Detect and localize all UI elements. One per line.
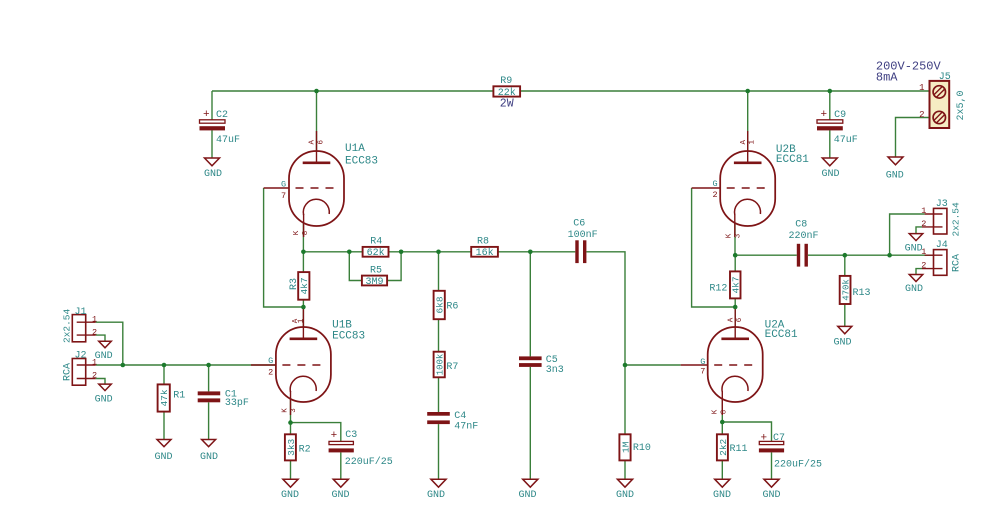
svg-text:R2: R2 — [299, 445, 311, 456]
svg-text:220uF/25: 220uF/25 — [774, 458, 822, 470]
svg-text:G: G — [281, 180, 286, 190]
svg-text:J2: J2 — [75, 351, 87, 362]
svg-text:+: + — [331, 430, 338, 442]
svg-text:1: 1 — [298, 318, 306, 323]
svg-text:K: K — [281, 408, 289, 413]
svg-text:+: + — [203, 109, 210, 121]
svg-text:47uF: 47uF — [834, 135, 858, 146]
svg-text:2k2: 2k2 — [718, 438, 729, 455]
svg-text:8: 8 — [302, 231, 310, 236]
svg-text:C8: C8 — [795, 220, 807, 231]
svg-text:8: 8 — [721, 410, 729, 415]
svg-text:C2: C2 — [216, 110, 228, 121]
svg-text:220nF: 220nF — [789, 231, 819, 242]
svg-text:C6: C6 — [573, 219, 585, 230]
svg-text:R12: R12 — [709, 284, 727, 295]
svg-text:16k: 16k — [476, 247, 494, 259]
svg-text:4k7: 4k7 — [299, 277, 310, 294]
svg-text:2W: 2W — [500, 97, 514, 110]
svg-text:GND: GND — [834, 338, 852, 349]
svg-text:C7: C7 — [773, 433, 785, 444]
svg-text:GND: GND — [281, 490, 299, 501]
svg-text:6k8: 6k8 — [435, 296, 446, 313]
svg-text:3k3: 3k3 — [286, 438, 297, 455]
svg-text:A: A — [727, 317, 735, 322]
svg-text:C3: C3 — [345, 430, 357, 441]
svg-text:33pF: 33pF — [225, 398, 249, 409]
svg-text:1: 1 — [92, 357, 97, 367]
svg-text:2: 2 — [921, 261, 926, 271]
svg-text:ECC83: ECC83 — [332, 331, 365, 343]
svg-text:GND: GND — [905, 284, 923, 295]
svg-text:GND: GND — [763, 490, 781, 501]
svg-text:R1: R1 — [173, 391, 185, 402]
svg-text:470k: 470k — [842, 279, 852, 301]
svg-text:ECC81: ECC81 — [765, 329, 798, 341]
svg-text:GND: GND — [95, 351, 113, 362]
svg-text:J5: J5 — [939, 72, 951, 83]
svg-text:GND: GND — [519, 490, 537, 501]
svg-text:J4: J4 — [936, 240, 948, 251]
svg-text:J1: J1 — [75, 307, 87, 318]
svg-text:R8: R8 — [477, 237, 489, 248]
svg-text:6: 6 — [317, 140, 325, 145]
svg-text:R4: R4 — [370, 237, 382, 248]
svg-text:2: 2 — [921, 219, 926, 229]
svg-text:7: 7 — [281, 191, 286, 201]
svg-text:R10: R10 — [633, 443, 651, 454]
svg-text:3: 3 — [734, 233, 742, 238]
svg-text:3n3: 3n3 — [546, 365, 564, 376]
svg-text:8mA: 8mA — [876, 70, 898, 84]
svg-text:2x2.54: 2x2.54 — [951, 202, 962, 237]
svg-text:K: K — [293, 230, 301, 235]
svg-text:R5: R5 — [370, 265, 382, 276]
svg-text:2x5,0: 2x5,0 — [956, 90, 967, 120]
svg-text:47uF: 47uF — [216, 135, 240, 146]
svg-text:47nF: 47nF — [454, 422, 478, 433]
svg-text:100k: 100k — [436, 354, 446, 376]
svg-text:R7: R7 — [446, 362, 458, 373]
svg-text:100nF: 100nF — [568, 230, 598, 241]
svg-text:R13: R13 — [853, 288, 871, 299]
svg-text:2x2.54: 2x2.54 — [62, 308, 73, 343]
svg-text:GND: GND — [822, 169, 840, 180]
svg-text:220uF/25: 220uF/25 — [345, 456, 393, 468]
svg-text:47k: 47k — [159, 389, 170, 406]
svg-text:GND: GND — [905, 244, 923, 255]
svg-text:GND: GND — [155, 452, 173, 463]
svg-text:GND: GND — [332, 490, 350, 501]
svg-text:+: + — [761, 433, 768, 445]
svg-text:C4: C4 — [454, 411, 466, 422]
svg-text:J3: J3 — [936, 199, 948, 210]
svg-text:1M: 1M — [620, 441, 631, 453]
svg-text:2: 2 — [92, 371, 97, 381]
svg-text:RCA: RCA — [63, 363, 74, 381]
svg-text:4k7: 4k7 — [731, 276, 742, 293]
svg-text:+: + — [821, 109, 828, 121]
svg-text:K: K — [726, 233, 734, 238]
svg-text:U1A: U1A — [345, 143, 365, 155]
svg-text:2: 2 — [92, 327, 97, 337]
svg-text:2: 2 — [919, 110, 924, 120]
svg-text:GND: GND — [200, 452, 218, 463]
svg-text:GND: GND — [886, 171, 904, 182]
svg-text:ECC83: ECC83 — [345, 155, 378, 167]
svg-text:62k: 62k — [367, 247, 385, 259]
svg-text:R9: R9 — [500, 76, 512, 87]
svg-text:7: 7 — [700, 367, 705, 377]
svg-text:3M9: 3M9 — [365, 277, 383, 288]
svg-text:G: G — [713, 179, 718, 189]
svg-text:2: 2 — [713, 190, 718, 200]
svg-text:R11: R11 — [730, 444, 748, 455]
svg-text:C9: C9 — [834, 110, 846, 121]
svg-text:1: 1 — [749, 140, 757, 145]
svg-text:RCA: RCA — [952, 254, 963, 272]
svg-text:GND: GND — [616, 490, 634, 501]
svg-text:2: 2 — [268, 368, 273, 378]
svg-text:A: A — [309, 140, 317, 145]
svg-text:R6: R6 — [446, 302, 458, 313]
svg-text:GND: GND — [204, 169, 222, 180]
svg-text:K: K — [712, 409, 720, 414]
svg-text:6: 6 — [736, 317, 744, 322]
svg-text:1: 1 — [921, 206, 926, 216]
svg-text:1: 1 — [919, 83, 924, 93]
svg-text:3: 3 — [290, 408, 298, 413]
svg-text:1: 1 — [92, 315, 97, 325]
svg-text:GND: GND — [427, 490, 445, 501]
svg-text:ECC81: ECC81 — [776, 154, 809, 166]
svg-text:GND: GND — [95, 395, 113, 406]
svg-text:G: G — [268, 356, 273, 366]
svg-text:A: A — [740, 140, 748, 145]
svg-text:GND: GND — [713, 490, 731, 501]
